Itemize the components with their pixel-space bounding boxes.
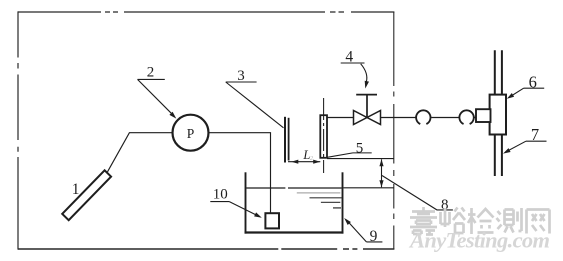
tank 9 walls bbox=[245, 172, 247, 233]
wire hose from wand to pump bbox=[108, 133, 173, 172]
tube centre line (chain) bbox=[323, 98, 325, 173]
nozzle wand 1 bbox=[62, 170, 111, 220]
watermark chinese char yu bbox=[441, 208, 466, 234]
sample tube 5 bbox=[320, 115, 327, 158]
border frame right (chain line) bbox=[393, 12, 395, 249]
vertical pipe upper 7 bbox=[495, 50, 502, 95]
dimension L between nozzle and tube bbox=[288, 161, 320, 163]
tee fitting 6 side stub bbox=[476, 109, 491, 122]
svg-text:3: 3 bbox=[237, 68, 245, 84]
watermark chinese char jian bbox=[468, 208, 494, 234]
main line tube to valve to couplings bbox=[327, 117, 477, 119]
tee fitting 6 bbox=[490, 95, 506, 135]
pump P circle bbox=[173, 115, 209, 151]
valve 4 stem and handle bbox=[356, 95, 377, 118]
svg-text:P: P bbox=[187, 126, 195, 141]
watermark chinese char wang bbox=[527, 210, 550, 234]
svg-text:5: 5 bbox=[356, 140, 364, 156]
height dimension arrow (8) bbox=[381, 159, 383, 187]
svg-text:1: 1 bbox=[72, 181, 80, 198]
coupling circle B bbox=[459, 110, 473, 124]
svg-text:AnyTesting.com: AnyTesting.com bbox=[408, 228, 550, 253]
svg-text:10: 10 bbox=[213, 187, 228, 203]
immersed block 10 bbox=[265, 213, 279, 228]
border frame top (phantom chain line) bbox=[18, 11, 394, 13]
svg-text:2: 2 bbox=[147, 65, 155, 81]
wire pump to down-pipe corner bbox=[209, 133, 271, 213]
vertical pipe lower bbox=[495, 134, 502, 176]
watermark chinese char jia bbox=[410, 207, 437, 235]
border frame left bbox=[17, 11, 19, 249]
coupling circle A bbox=[416, 110, 430, 124]
nozzle plate 3 right bbox=[288, 118, 290, 161]
valve 4 bbox=[354, 111, 381, 125]
watermark chinese char ce bbox=[497, 208, 522, 233]
water level extension line bbox=[344, 187, 394, 189]
outlet level line bbox=[327, 158, 394, 160]
nozzle plates 3 bbox=[284, 117, 286, 163]
border frame bottom bbox=[18, 248, 394, 250]
water surface marks bbox=[297, 192, 341, 194]
water level line bbox=[246, 187, 341, 189]
